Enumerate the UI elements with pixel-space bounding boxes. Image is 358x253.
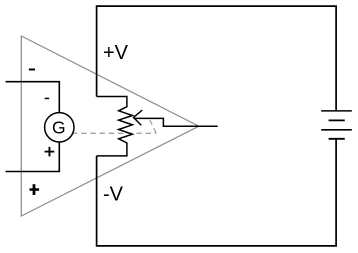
mechanical linkage (dashed) from galvanometer needle to pot wiper: [72, 132, 156, 134]
galvanometer plus terminal label: [45, 147, 55, 157]
battery V1 long plate (top, +): [321, 110, 352, 112]
noninverting input plus label (bold): [30, 184, 40, 195]
inverting input minus label (bold): [29, 69, 35, 71]
battery V1 long plate: [321, 129, 352, 131]
battery V1 short plate (bottom, -): [329, 138, 345, 140]
linkage dashed diagonal to wiper: [150, 120, 156, 133]
battery V1 short plate: [329, 119, 345, 121]
wire: +V rail from pot top around to battery positive: [97, 6, 337, 110]
wire: battery negative around to -V rail at pot bottom: [97, 139, 337, 246]
noninverting input lead wire: [6, 142, 60, 172]
galvanometer minus terminal label: [45, 98, 49, 100]
svg-text:-V: -V: [103, 184, 124, 206]
galvanometer G (null detector): [45, 113, 74, 142]
potentiometer wiper arrowhead: [134, 110, 143, 125]
svg-text:G: G: [52, 118, 66, 138]
op-amp body U1 (triangle): [21, 36, 199, 216]
svg-text:+V: +V: [103, 42, 129, 64]
inverting input lead wire: [6, 82, 60, 113]
potentiometer R1 (zigzag) with leads to +V and -V rails: [97, 97, 133, 156]
output wire from wiper to apex: [134, 118, 218, 126]
